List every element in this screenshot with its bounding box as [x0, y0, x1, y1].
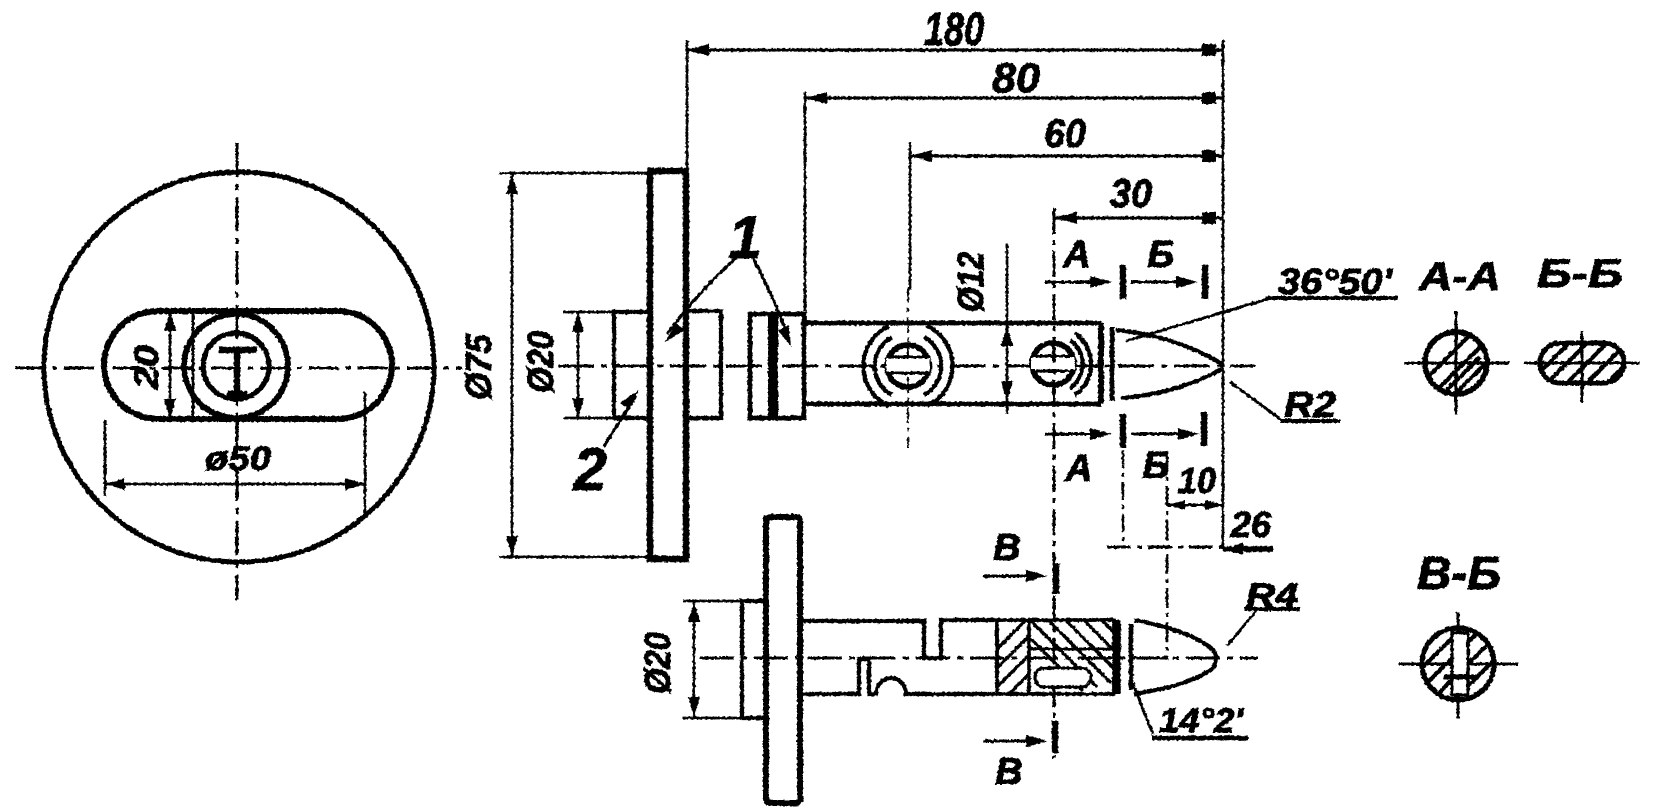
svg-text:Ø20: Ø20 — [637, 632, 678, 694]
svg-text:10: 10 — [1178, 460, 1216, 501]
front view boss outer circle — [184, 314, 288, 418]
svg-text:В: В — [993, 527, 1020, 569]
svg-text:20: 20 — [128, 345, 166, 390]
svg-text:80: 80 — [992, 54, 1040, 101]
svg-text:30: 30 — [1110, 172, 1152, 216]
main view shaft end collar lines — [1098, 323, 1104, 404]
front view boss inner circle — [203, 333, 269, 399]
svg-text:Ø75: Ø75 — [458, 333, 499, 400]
dimension diameter 20 (lower view) — [683, 601, 742, 718]
lower view nose with tip radius R4 — [1134, 620, 1216, 694]
svg-text:180: 180 — [924, 3, 984, 55]
lower view vertical split line — [1027, 620, 1031, 694]
dimension 180 — [687, 40, 1223, 549]
section A-A hatched circle — [1425, 332, 1487, 394]
section A upper mark — [1045, 280, 1098, 283]
svg-text:36°50': 36°50' — [1278, 261, 1394, 302]
main view collar after flange — [686, 311, 721, 418]
svg-text:А: А — [1062, 234, 1090, 276]
svg-text:Б: Б — [1143, 445, 1170, 487]
lower view flange — [766, 517, 800, 803]
svg-text:14°2': 14°2' — [1159, 702, 1245, 740]
svg-text:Ø20: Ø20 — [520, 331, 561, 393]
leader and label R2 — [1230, 382, 1283, 421]
dimension 10 — [1166, 452, 1169, 660]
dimension 60 — [910, 142, 1223, 290]
lower view slot window in section — [1035, 668, 1091, 687]
svg-text:Б: Б — [1148, 234, 1175, 276]
front view slot edge line — [192, 313, 195, 418]
section V-B crosshair — [1399, 612, 1518, 718]
section B lower mark (Cyrillic Be) — [1131, 432, 1186, 435]
svg-text:2: 2 — [572, 436, 606, 503]
svg-text:Б-Б: Б-Б — [1537, 252, 1623, 296]
main view spacer ring — [750, 314, 804, 418]
dimension diameter 20 (main view) — [563, 312, 614, 418]
hole 2 — [1032, 343, 1074, 385]
dimension diameter 50 (front view) — [105, 392, 365, 516]
svg-text:А-А: А-А — [1418, 255, 1501, 299]
main view shaft top edge — [804, 321, 1101, 326]
dimension diameter 75 — [499, 173, 657, 557]
section V upper mark (Cyrillic Ve) — [983, 574, 1036, 577]
main view spacer ring groove fill — [768, 315, 778, 417]
svg-text:60: 60 — [1044, 112, 1086, 156]
svg-text:ø50: ø50 — [205, 440, 271, 478]
section B-B cut centerline through hole 2 — [1053, 208, 1056, 758]
hole 1 side arcs — [863, 326, 889, 406]
lower view end collar lines — [1115, 620, 1121, 694]
main view left stub — [614, 312, 650, 418]
svg-text:26: 26 — [1230, 504, 1272, 545]
hole 1 centerline — [907, 287, 909, 448]
svg-text:Ø12: Ø12 — [950, 252, 991, 312]
hole 1 — [887, 345, 929, 387]
front view slot obround — [104, 311, 392, 419]
dimension 80 — [805, 92, 1223, 311]
dimension diameter 12 — [1006, 243, 1009, 414]
dimension 20 (front view) — [169, 311, 172, 419]
dimension 30 — [1055, 216, 1223, 219]
dimension 26 — [1107, 546, 1223, 549]
main view axis centerline — [558, 364, 1256, 367]
lower view axis centerline — [700, 656, 1258, 659]
leader and label R4 — [1227, 611, 1256, 646]
section V lower mark (Cyrillic Ve) — [983, 739, 1036, 742]
lower view shaft top profile — [800, 620, 997, 658]
front view flange outer circle — [44, 172, 434, 562]
section V-B slot window — [1452, 633, 1468, 695]
leader and label 36deg50min — [1126, 299, 1268, 341]
lower view left stub — [742, 601, 766, 718]
main view nose cone — [1116, 330, 1222, 364]
svg-text:А: А — [1064, 448, 1092, 490]
lower view shaft bottom profile — [800, 659, 997, 694]
hole 2 side arcs — [1075, 333, 1091, 395]
section A-A crosshair — [1404, 311, 1510, 415]
section B-B crosshair — [1524, 331, 1640, 403]
section A lower mark — [1045, 432, 1098, 435]
section V-B hatched circle — [1422, 628, 1494, 700]
section B-B hatched obround — [1540, 343, 1624, 383]
leader and label 14deg2min — [1133, 683, 1153, 734]
svg-text:R4: R4 — [1246, 577, 1298, 615]
main view shaft bottom edge — [804, 402, 1101, 407]
svg-text:R2: R2 — [1284, 384, 1336, 425]
main view flange — [650, 171, 686, 559]
svg-text:В: В — [995, 751, 1022, 793]
svg-text:В-Б: В-Б — [1417, 547, 1501, 599]
section A cut trace below — [1122, 450, 1124, 547]
front view centerlines — [15, 143, 462, 600]
lower view hatched section block — [997, 620, 1114, 694]
section B upper mark (Cyrillic Be) — [1131, 280, 1184, 283]
front view slot key mark — [219, 350, 257, 396]
